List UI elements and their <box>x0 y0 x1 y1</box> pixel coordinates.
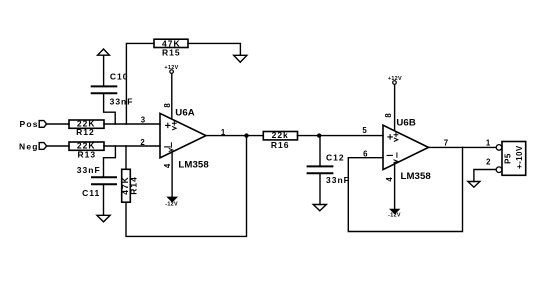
svg-text:R12: R12 <box>76 127 95 137</box>
wire Neg to R13 <box>46 145 69 147</box>
resistor R13 <box>69 142 104 150</box>
wire C12 to ground <box>319 174 321 204</box>
svg-text:C10: C10 <box>110 72 129 82</box>
svg-text:33nF: 33nF <box>110 97 134 107</box>
svg-text:R15: R15 <box>162 48 181 58</box>
wire R12 to pin3 <box>104 123 160 125</box>
connector P5 box <box>502 142 526 176</box>
-12V symbol U6B <box>391 210 399 214</box>
wire pin6 feedback U6B <box>348 147 462 231</box>
junction U6A output node <box>244 133 248 137</box>
wire +12V to pin8 <box>171 74 173 119</box>
svg-text:1: 1 <box>486 138 491 147</box>
wire +12V to pin8 U6B <box>394 85 396 131</box>
svg-text:4: 4 <box>385 177 394 182</box>
svg-text:5: 5 <box>362 126 367 135</box>
svg-text:1: 1 <box>221 128 226 137</box>
resistor R15 <box>154 39 188 47</box>
svg-text:+-10V: +-10V <box>515 145 524 169</box>
op-amp U6B V- mark <box>394 153 398 163</box>
op-amp U6A input plus mark <box>166 123 170 127</box>
-12V symbol U6A <box>168 197 176 201</box>
ground below C12 <box>313 205 326 211</box>
wire R15 right to ground <box>188 43 240 55</box>
wire pin2 to C11 <box>104 146 116 176</box>
svg-text:2: 2 <box>486 157 491 166</box>
ground at R15 right <box>234 55 247 62</box>
svg-text:2: 2 <box>140 138 145 147</box>
op-amp U6A V+ mark <box>172 121 176 130</box>
wire R15 left to pin3 net <box>126 43 154 124</box>
resistor R14 <box>122 169 131 202</box>
capacitor C12 <box>308 166 333 173</box>
op-amp U6B <box>383 125 429 169</box>
ground above C10 <box>98 49 110 55</box>
svg-text:C11: C11 <box>82 188 100 198</box>
capacitor C10 <box>92 86 117 93</box>
svg-text:LM358: LM358 <box>401 171 432 182</box>
junction R16 output node <box>317 133 321 137</box>
svg-text:22k: 22k <box>272 130 289 140</box>
svg-text:P5: P5 <box>503 153 512 164</box>
ground below C11 <box>97 215 110 222</box>
op-amp U6B input plus mark <box>388 135 392 139</box>
wire C10 to pin3 net <box>104 94 116 124</box>
svg-text:R14: R14 <box>129 176 139 195</box>
wire C11 to ground <box>103 185 105 215</box>
wire U6A output to R16 <box>206 135 263 137</box>
wire gnd to C10 <box>103 55 105 85</box>
svg-text:U6A: U6A <box>175 108 195 119</box>
wire U6B output to P5 <box>429 146 496 148</box>
svg-text:C12: C12 <box>326 152 345 162</box>
resistor R12 <box>69 120 104 128</box>
capacitor C11 <box>92 177 116 184</box>
svg-text:R13: R13 <box>78 150 97 160</box>
op-amp U6B input minus mark <box>387 154 392 156</box>
svg-text:U6B: U6B <box>396 118 416 129</box>
wire R14 to output (feedback) <box>126 136 247 237</box>
svg-text:7: 7 <box>444 139 448 148</box>
P5 pin 2 circle <box>496 167 502 173</box>
svg-text:+12V: +12V <box>388 76 402 82</box>
connector Pos <box>39 121 46 128</box>
wire P5 pin2 to ground <box>474 170 496 182</box>
svg-text:Neg: Neg <box>19 141 39 151</box>
op-amp U6A V- mark <box>169 143 173 152</box>
svg-text:6: 6 <box>363 150 368 159</box>
op-amp U6A input minus mark <box>165 146 170 148</box>
svg-text:4: 4 <box>163 163 172 168</box>
svg-text:33nF: 33nF <box>77 165 101 175</box>
wire pin2 to R14 <box>125 146 127 169</box>
wire Pos to R12 <box>46 123 69 125</box>
wire R16 to pin5 <box>298 135 384 137</box>
svg-text:R16: R16 <box>271 140 290 150</box>
op-amp U6B V+ mark <box>394 133 398 142</box>
svg-text:33nF: 33nF <box>326 175 350 185</box>
wire R13 to pin2 <box>104 145 160 147</box>
op-amp U6A <box>160 113 206 157</box>
resistor R16 <box>263 132 297 140</box>
svg-text:3: 3 <box>141 115 146 124</box>
svg-text:LM358: LM358 <box>178 160 209 171</box>
wire node to C12 <box>319 136 321 166</box>
+12V symbol U6A <box>170 70 174 74</box>
connector Neg <box>39 143 46 150</box>
P5 pin 1 circle <box>496 145 502 151</box>
svg-text:8: 8 <box>163 103 172 108</box>
svg-text:-12V: -12V <box>388 213 401 219</box>
svg-text:+12V: +12V <box>164 65 178 71</box>
+12V symbol U6B <box>393 81 397 85</box>
wire pin4 to -12V <box>171 152 173 198</box>
svg-text:-12V: -12V <box>165 202 178 208</box>
wire pin4 to -12V U6B <box>394 164 396 210</box>
ground at P5 pin2 <box>468 182 480 188</box>
svg-text:8: 8 <box>384 113 393 118</box>
svg-text:Pos: Pos <box>20 119 39 129</box>
